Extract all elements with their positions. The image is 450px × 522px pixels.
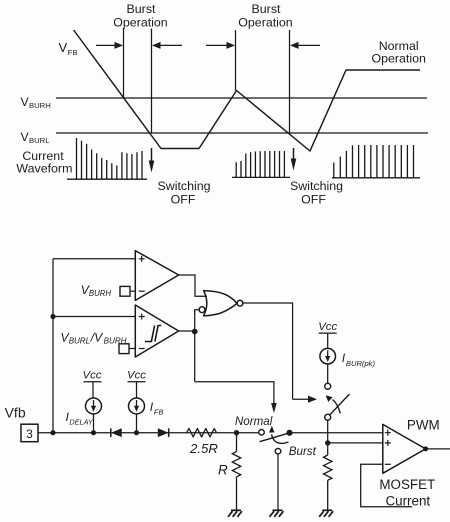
- wire burst contact to ground: [277, 454, 279, 510]
- node IFB wire: [134, 430, 139, 435]
- svg-text:Vcc: Vcc: [83, 370, 102, 382]
- svg-text:OFF: OFF: [171, 193, 196, 207]
- wire PWM output: [426, 448, 450, 450]
- wire comp2 output up to NOR bubble: [195, 310, 200, 331]
- svg-text:BURL: BURL: [69, 336, 90, 345]
- current source IDELAY: [86, 398, 102, 433]
- svg-text:Switching: Switching: [157, 179, 210, 193]
- svg-text:Operation: Operation: [113, 15, 168, 29]
- label IFB: [150, 400, 164, 416]
- svg-text:3: 3: [26, 427, 33, 441]
- wire MOSFET current sense: [361, 464, 413, 506]
- switch motion arrow: [269, 426, 289, 444]
- label Normal Operation: [371, 39, 426, 66]
- ground under R: [228, 510, 242, 517]
- svg-text:Operation: Operation: [371, 52, 426, 66]
- wire main rail right of switch: [290, 432, 383, 434]
- svg-text:MOSFET: MOSFET: [379, 477, 435, 492]
- marker line 1: [123, 28, 125, 98]
- burst switch lower contact: [325, 414, 331, 420]
- arrow right toward line3: [206, 42, 235, 49]
- svg-text:Normal: Normal: [235, 415, 273, 428]
- VBURL threshold line: [56, 132, 428, 134]
- svg-text:FB: FB: [154, 407, 164, 416]
- resistor R: [232, 433, 240, 510]
- svg-text:Vfb: Vfb: [5, 404, 26, 420]
- arrow left toward line4: [290, 42, 320, 49]
- current waveform burst group 3: [332, 145, 420, 178]
- svg-text:OFF: OFF: [301, 193, 326, 207]
- svg-text:Waveform: Waveform: [16, 162, 72, 176]
- label VBURL: [21, 130, 51, 145]
- switching off down-arrow 1: [149, 148, 155, 173]
- NOR-style gate U3: [199, 291, 243, 316]
- svg-text:Current: Current: [385, 493, 430, 508]
- arrow right toward line1: [96, 42, 123, 49]
- node IDELAY wire: [91, 430, 96, 435]
- node R divider: [234, 430, 239, 435]
- wire main Vfb rail: [38, 432, 259, 434]
- svg-text:FB: FB: [68, 48, 78, 57]
- label IDELAY: [66, 410, 94, 426]
- ground under burst contact: [270, 510, 284, 517]
- marker line 3: [235, 30, 237, 91]
- label Burst Operation 2: [238, 2, 293, 29]
- wire comp2 output down: [194, 331, 196, 382]
- svg-text:V: V: [59, 40, 68, 55]
- wire comp2 to normal switch: [195, 382, 274, 405]
- switch normal contact: [259, 430, 265, 436]
- current waveform burst group 2: [232, 151, 290, 177]
- pin 3 box: [21, 424, 38, 442]
- burst switch upper contact: [325, 383, 331, 389]
- arrow NOR to burst switch: [293, 396, 317, 403]
- arrow left toward line2: [152, 42, 182, 49]
- svg-text:BURH: BURH: [29, 101, 51, 110]
- VBURL/VBURH reference box: [119, 344, 135, 354]
- svg-text:Burst: Burst: [252, 2, 281, 16]
- VBURH threshold line: [56, 97, 427, 99]
- svg-text:R: R: [218, 463, 228, 478]
- wire to PWM second input: [328, 442, 383, 444]
- label Switching OFF 1: [157, 179, 210, 207]
- label Burst Operation 1: [113, 2, 168, 29]
- node Vfb wire: [50, 430, 55, 435]
- svg-text:Operation: Operation: [238, 15, 293, 29]
- burst switch motion arrow: [326, 395, 341, 413]
- label IBUR(pk): [342, 351, 376, 368]
- VFB waveform: [74, 30, 420, 151]
- svg-text:2.5R: 2.5R: [189, 441, 218, 456]
- label Current Waveform: [16, 149, 72, 175]
- wire NOR output: [243, 303, 293, 399]
- svg-text:Vcc: Vcc: [127, 370, 146, 382]
- burst switch blade: [328, 394, 349, 416]
- wire comp2 plus input: [53, 316, 135, 318]
- svg-text:BUR(pk): BUR(pk): [346, 359, 376, 368]
- svg-text:PWM: PWM: [407, 417, 440, 432]
- label VBURL/VBURH input: [61, 331, 127, 346]
- op-amp comparator U1: [135, 251, 178, 301]
- current source IFB: [129, 398, 145, 433]
- current waveform burst group 1: [67, 138, 147, 179]
- op-amp comparator U2 (hysteresis): [135, 305, 178, 357]
- switch blade: [260, 433, 289, 442]
- label MOSFET Current: [379, 477, 435, 508]
- wire comp2 output: [179, 330, 195, 332]
- wire burst source to divider: [327, 420, 329, 455]
- switch common node: [286, 430, 292, 436]
- marker line 2: [151, 29, 153, 134]
- label VFB: [59, 40, 78, 57]
- node comp2 output: [192, 329, 198, 335]
- node comp2 plus branch: [50, 314, 55, 319]
- svg-text:DELAY: DELAY: [69, 417, 94, 426]
- resistor 2.5R: [187, 429, 217, 437]
- label Switching OFF 2: [290, 179, 343, 207]
- diode D2 (pointing right): [158, 428, 169, 437]
- svg-text:Vcc: Vcc: [318, 321, 337, 333]
- switching off down-arrow 2: [291, 148, 297, 171]
- op-amp PWM comparator: [383, 424, 426, 473]
- power rail Vcc 1: [84, 382, 102, 398]
- arrow comp2 to normal switch: [271, 403, 277, 413]
- resistor R2: [324, 455, 332, 510]
- diode D1 (pointing left): [111, 428, 122, 437]
- svg-text:BURL: BURL: [29, 136, 50, 145]
- wire Vfb sense vertical: [52, 259, 54, 433]
- marker line 4: [289, 30, 291, 134]
- svg-text:BURH: BURH: [89, 289, 111, 298]
- power rail Vcc 2: [128, 382, 146, 398]
- VBURH reference box: [120, 286, 135, 296]
- current source IBUR(pk): [320, 348, 336, 383]
- ground under R2: [319, 510, 333, 517]
- node PWM output: [423, 446, 428, 451]
- switch burst contact: [275, 448, 281, 454]
- svg-text:/V: /V: [90, 331, 104, 345]
- wire comp1 plus input: [53, 258, 135, 260]
- label VBURH input: [81, 283, 112, 298]
- node burst feed: [325, 440, 330, 445]
- wire comp1 output to NOR: [179, 275, 207, 296]
- power rail Vcc 3: [319, 333, 337, 348]
- svg-text:Burst: Burst: [127, 2, 156, 16]
- svg-text:Switching: Switching: [290, 179, 343, 193]
- svg-text:Burst: Burst: [289, 445, 317, 458]
- label VBURH: [21, 95, 51, 110]
